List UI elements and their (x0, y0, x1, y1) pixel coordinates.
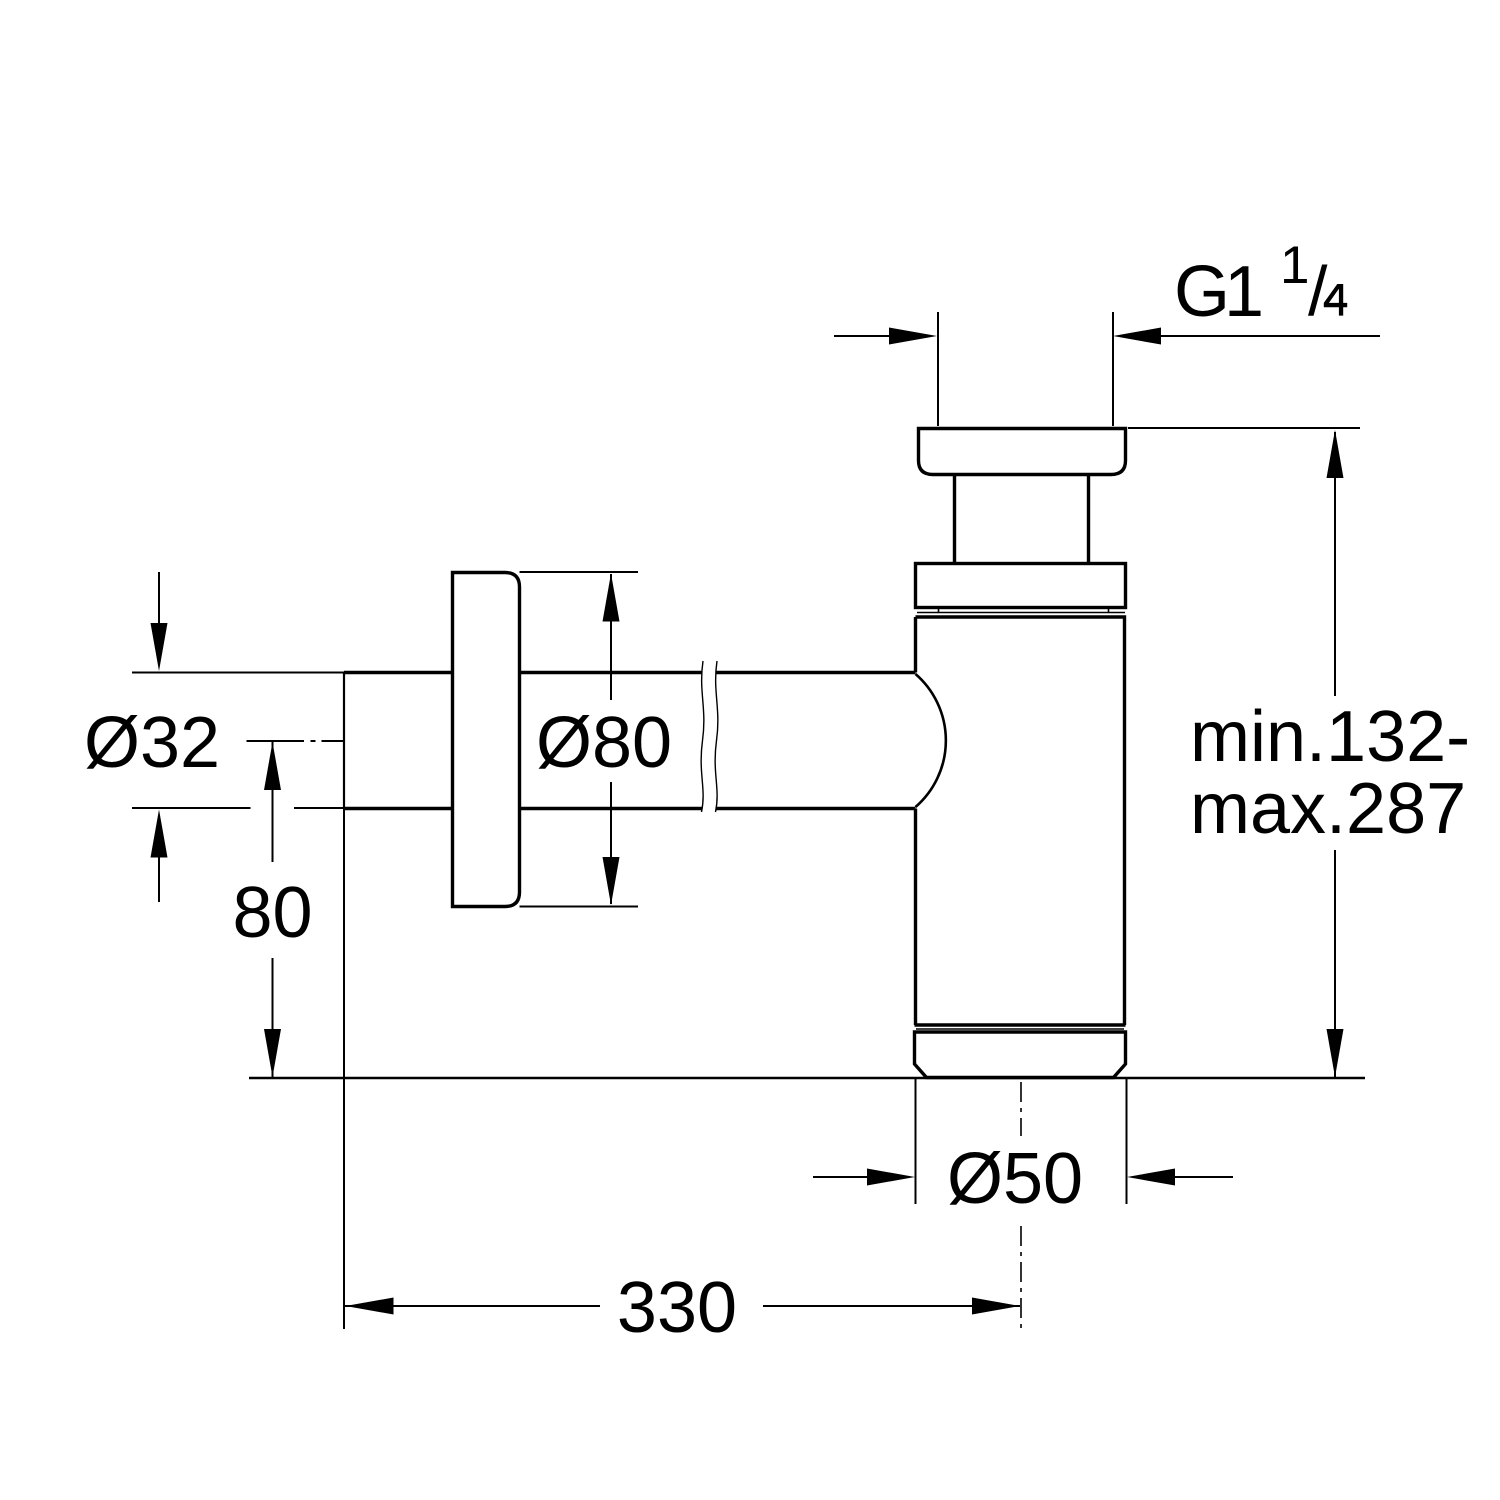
svg-text:Ø32: Ø32 (84, 703, 220, 783)
svg-text:min.132-: min.132- (1190, 697, 1470, 777)
svg-text:/: / (1308, 252, 1328, 330)
svg-text:1: 1 (1280, 236, 1309, 295)
svg-text:80: 80 (232, 873, 312, 953)
svg-text:max.287: max.287 (1190, 769, 1466, 849)
svg-text:G1: G1 (1174, 252, 1261, 332)
svg-text:330: 330 (617, 1268, 737, 1348)
svg-text:Ø50: Ø50 (947, 1139, 1083, 1219)
svg-text:Ø80: Ø80 (536, 703, 672, 783)
